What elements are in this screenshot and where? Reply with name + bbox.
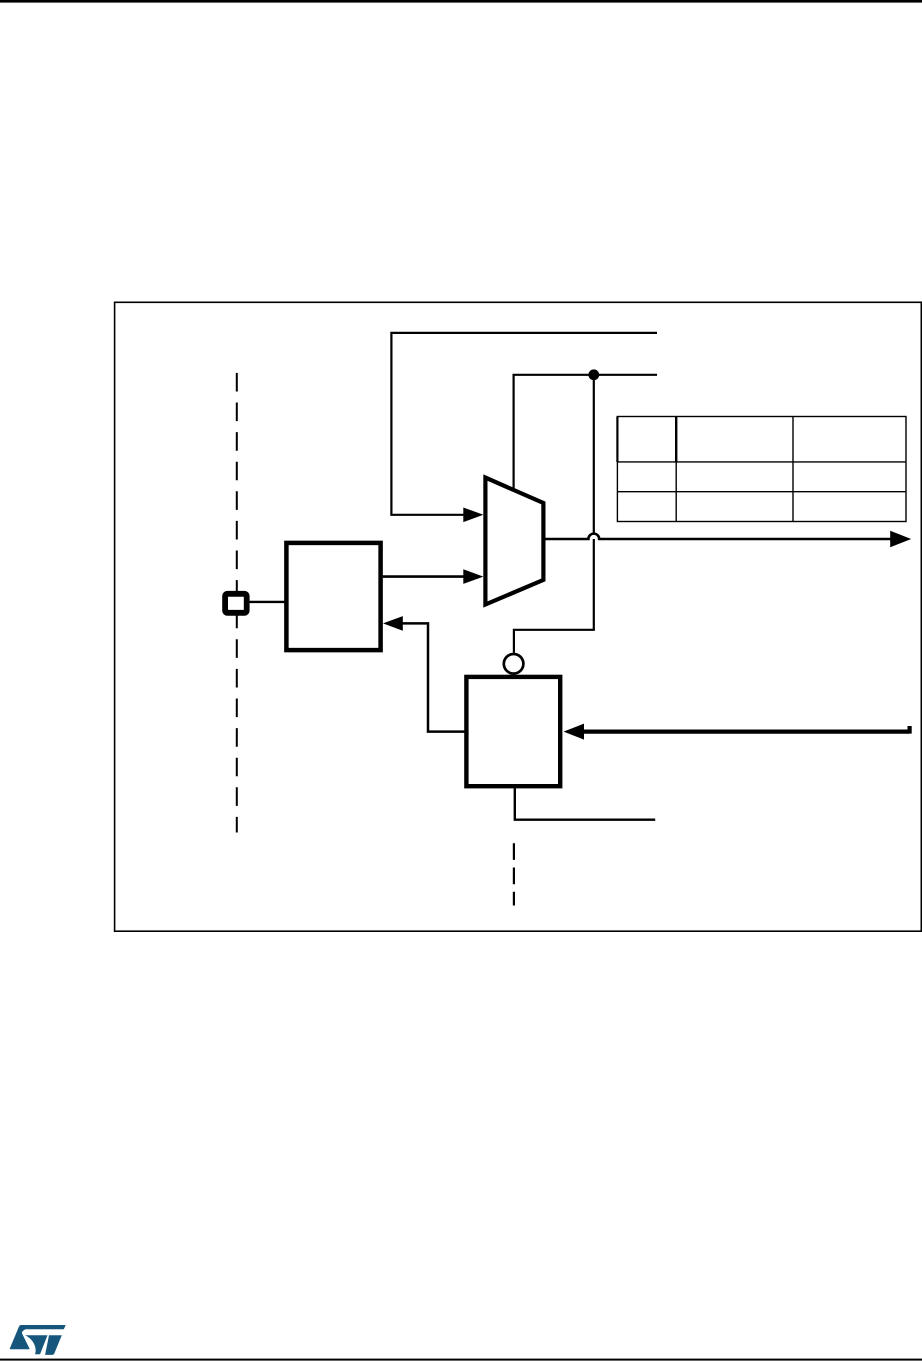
- table: row divider 1: [617, 461, 906, 463]
- inverter circle: [504, 654, 524, 674]
- dashed net line (pin boundary column): [236, 373, 238, 833]
- wire: tapped net to label column: [514, 375, 657, 494]
- junction dot: [588, 369, 599, 380]
- pin square: [225, 594, 247, 613]
- ST logo: [10, 1325, 66, 1355]
- wire end stub: [908, 726, 912, 734]
- mux trapezoid: [485, 478, 543, 605]
- table: row divider 2: [617, 491, 906, 493]
- page header rule: [0, 0, 922, 3]
- wire: edge block bottom output: [515, 788, 655, 819]
- figure frame: [115, 302, 922, 931]
- wire: filter to mux lower input: [383, 575, 465, 578]
- table: heavy header cell edges: [616, 417, 618, 463]
- wire: vertical tap down to inverter circle: [514, 375, 594, 653]
- arrowhead: into filter right side: [383, 616, 403, 631]
- table: outer frame: [617, 417, 906, 522]
- table: column divider 2: [792, 417, 794, 522]
- table: column divider 1: [675, 417, 677, 522]
- arrowhead: mux upper input: [463, 508, 483, 523]
- arrowhead: mux lower input: [463, 569, 483, 584]
- edge detector block: [466, 677, 560, 786]
- hop mask: [588, 534, 599, 539]
- filter block: [286, 543, 380, 650]
- wire: mux output with hop: [543, 534, 891, 539]
- dashed stub below edge block: [513, 843, 515, 905]
- arrowhead: output to right: [890, 531, 911, 547]
- page footer rule: [0, 1359, 922, 1361]
- arrowhead: into edge block right side: [564, 724, 584, 740]
- wire: long trigger input from right: [583, 729, 910, 733]
- wire: loop from mux upper input up and over to label column: [391, 333, 657, 515]
- wire: feedback from edge block to filter: [402, 623, 466, 731]
- wire: pin to filter block: [249, 601, 287, 603]
